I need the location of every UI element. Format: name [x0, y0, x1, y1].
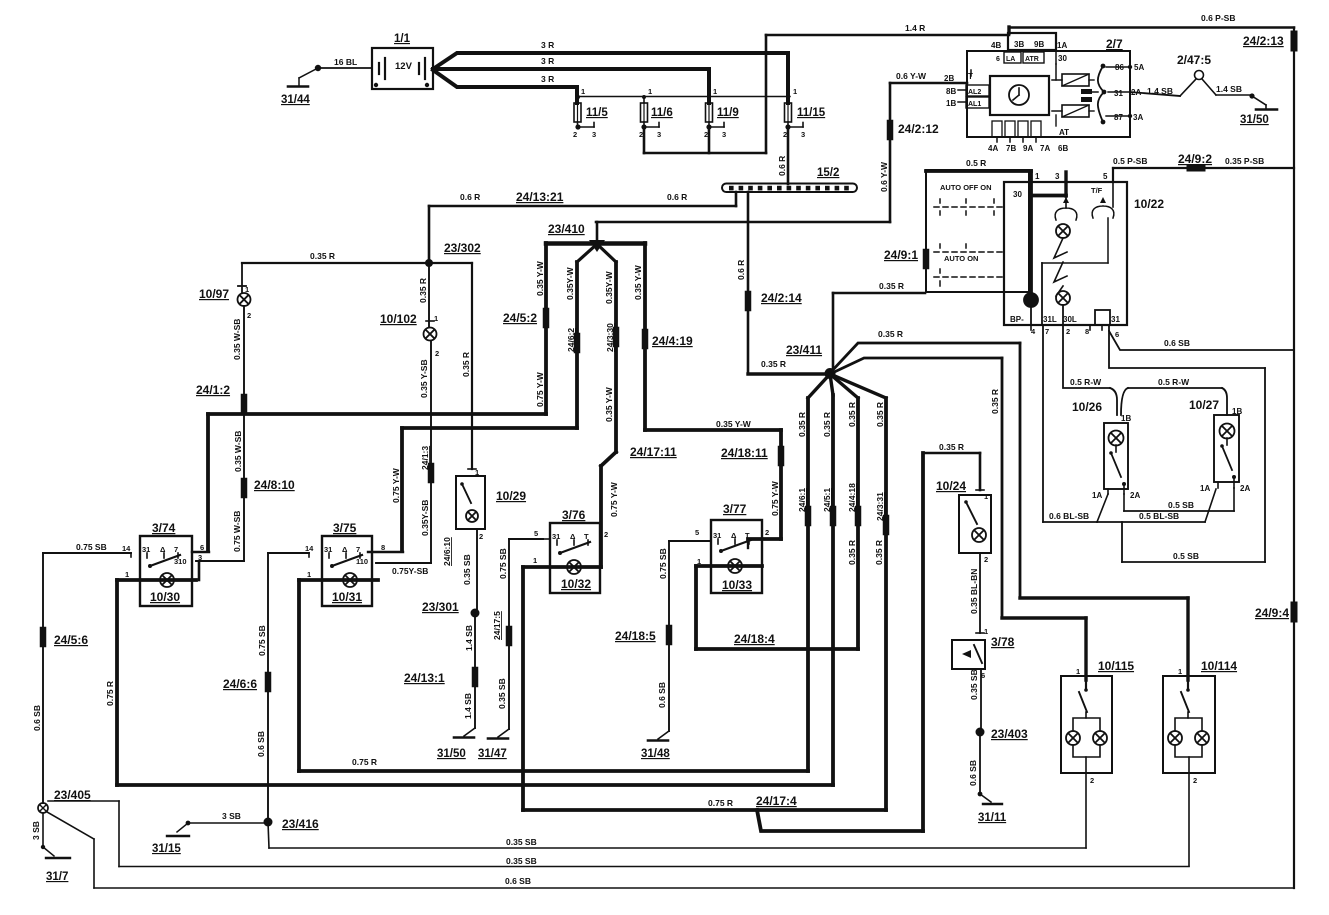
svg-text:23/403: 23/403 [991, 727, 1028, 741]
wire right edge vertical bus [1293, 28, 1295, 889]
svg-text:31: 31 [1114, 89, 1123, 98]
wire 0.5 R-W 30L to 10/26 [1063, 325, 1110, 388]
svg-text:2: 2 [604, 530, 608, 539]
svg-text:24/9:2: 24/9:2 [1178, 152, 1212, 166]
svg-text:0.6 P-SB: 0.6 P-SB [1201, 13, 1236, 23]
svg-text:0.35 W-SB: 0.35 W-SB [233, 431, 243, 472]
svg-text:7B: 7B [1006, 144, 1016, 153]
wire 0.6 SB bottom bus 3 [94, 887, 1294, 889]
svg-text:0.75 SB: 0.75 SB [76, 542, 107, 552]
control unit 10/22 main box [1004, 182, 1127, 325]
svg-text:1A: 1A [1092, 491, 1102, 500]
svg-text:10/29: 10/29 [496, 489, 526, 503]
junction 23/405 [38, 803, 48, 813]
svg-text:1.4 R: 1.4 R [905, 23, 925, 33]
svg-text:0.75 Y-W: 0.75 Y-W [609, 481, 619, 517]
switch 3/77 with lamp 10/33 [711, 520, 762, 593]
connector 24/9:4 [1291, 605, 1298, 619]
svg-text:3A: 3A [1133, 113, 1143, 122]
svg-text:AUTO ON: AUTO ON [944, 254, 978, 263]
wire 0.6 SB 23/403 to ground 31/11 [979, 732, 981, 794]
svg-text:2: 2 [1193, 776, 1197, 785]
wire 0.35 BL-BN 10/24 pin 2 to 3/78 [979, 553, 981, 633]
fuse 11/15 [786, 53, 790, 103]
connector 24/9:1 tick on 10/22 left edge [923, 252, 930, 266]
svg-text:8: 8 [1085, 327, 1089, 336]
junction 23/410 [596, 222, 599, 241]
relay 2/7 inner top row LA ATR [1004, 52, 1021, 63]
svg-text:6B: 6B [1058, 144, 1068, 153]
lamp inside 10/22 lower [1056, 291, 1070, 305]
wire 0.35 SB bottom bus 1 [268, 822, 269, 848]
svg-text:0.35 R: 0.35 R [761, 359, 786, 369]
svg-text:Δ: Δ [731, 531, 737, 540]
svg-text:0.35Y-W: 0.35Y-W [604, 270, 614, 304]
relay 2/7 top connector box with pins 4B 3B 9B 1A [1008, 33, 1056, 50]
svg-text:1: 1 [713, 87, 717, 96]
svg-text:0.6 BL-SB: 0.6 BL-SB [1049, 511, 1089, 521]
svg-text:2: 2 [573, 130, 577, 139]
control unit 10/22 selector box AUTO OFF ON [926, 170, 1029, 292]
svg-text:0.6 R: 0.6 R [460, 192, 480, 202]
svg-text:5A: 5A [1134, 63, 1144, 72]
svg-text:5: 5 [695, 528, 699, 537]
svg-text:10/33: 10/33 [722, 578, 752, 592]
svg-text:0.35 R: 0.35 R [990, 389, 1000, 414]
svg-text:24/1:3: 24/1:3 [420, 446, 430, 470]
fuse box 15/2 bus bar [722, 184, 857, 193]
svg-text:AUTO OFF ON: AUTO OFF ON [940, 183, 992, 192]
svg-text:24/5:1: 24/5:1 [822, 488, 832, 512]
wire 0.6 BL-SB 31L to 10/26 pin 1A [1043, 521, 1097, 523]
svg-text:0.35 R: 0.35 R [878, 329, 903, 339]
svg-text:31/50: 31/50 [1240, 114, 1269, 126]
svg-text:0.35 R: 0.35 R [847, 540, 857, 565]
wire 0.35 SB 10/114 pin 2 to bottom bus [1188, 773, 1190, 866]
wire 0.5 R along 10/22 top to pin 1 [926, 169, 1031, 173]
svg-text:23/416: 23/416 [282, 817, 319, 831]
wire 0.35 R star to 24/9:1 line [832, 293, 835, 373]
switch 3/78 [952, 640, 985, 669]
svg-text:10/114: 10/114 [1201, 659, 1237, 673]
svg-text:24/17:5: 24/17:5 [492, 611, 502, 640]
svg-text:0.6 SB: 0.6 SB [256, 731, 266, 757]
svg-text:8B: 8B [946, 87, 956, 96]
svg-text:0.35 SB: 0.35 SB [462, 554, 472, 585]
svg-text:24/4:18: 24/4:18 [847, 483, 857, 512]
svg-text:24/2:12: 24/2:12 [898, 122, 939, 136]
fuse 11/5 [575, 87, 579, 103]
relay 2/7 [967, 51, 1130, 137]
control unit 10/22 internals T contacts [1065, 196, 1067, 208]
svg-text:24/13:21: 24/13:21 [516, 190, 564, 204]
svg-text:0.35 SB: 0.35 SB [506, 856, 537, 866]
svg-text:1A: 1A [1057, 41, 1067, 50]
junction 23/416 [264, 818, 273, 827]
svg-text:31: 31 [552, 532, 560, 541]
svg-text:0.35 Y-SB: 0.35 Y-SB [419, 359, 429, 398]
svg-text:24/4:19: 24/4:19 [652, 334, 693, 348]
lamp switch unit 10/26 [1104, 423, 1128, 489]
wire 3 R middle [433, 67, 709, 71]
svg-text:1: 1 [793, 87, 797, 96]
lamp inside 10/22 upper [1056, 224, 1070, 238]
junction 23/301 [471, 609, 480, 618]
lamp unit 10/115 [1061, 676, 1112, 773]
svg-text:1: 1 [648, 87, 652, 96]
wire 31L from 10/22 pin 7 [1042, 325, 1044, 522]
relay 2/7 bottom pins 4A 7B 9A 7A 6B and AT [992, 121, 1002, 137]
wire 0.75 R 3/74 pin 1 to star via 24/5:1 [115, 580, 119, 785]
svg-text:2: 2 [704, 130, 708, 139]
svg-text:1: 1 [984, 492, 988, 501]
fuse 11/9 [707, 69, 711, 103]
wire 0.75 R 3/75 pin 1 to star via 24/6:1 [297, 580, 301, 771]
wire 0.35 Y-SB from 10/102 through 24/1:3 to 3/75 pin 3 [430, 341, 432, 563]
wire 0.35 R 3/77 pin 1 to star via 24/18:4 line [694, 566, 698, 649]
svg-text:30: 30 [1058, 54, 1067, 63]
lamp switch unit 10/27 [1214, 415, 1239, 482]
svg-text:24/1:2: 24/1:2 [196, 383, 230, 397]
svg-text:0.35 R: 0.35 R [310, 251, 335, 261]
svg-text:4A: 4A [988, 144, 998, 153]
svg-text:T/F: T/F [1091, 186, 1103, 195]
svg-text:11/15: 11/15 [797, 107, 826, 119]
wire 0.75 SB 3/75 pin 14 to 24/6:6 and 23/416 [308, 553, 310, 557]
svg-text:0.35 R: 0.35 R [461, 352, 471, 377]
svg-text:0.35 R: 0.35 R [822, 412, 832, 437]
svg-text:AL2: AL2 [968, 89, 981, 96]
svg-text:1: 1 [1076, 667, 1080, 676]
switch zigzag inside 10/22 [1054, 238, 1067, 258]
svg-text:16 BL: 16 BL [334, 57, 357, 67]
svg-text:24/6:1: 24/6:1 [797, 488, 807, 512]
svg-text:24/2:14: 24/2:14 [761, 291, 802, 305]
junction 23/302 with wire 0.35 R [242, 262, 472, 264]
svg-text:3: 3 [722, 130, 726, 139]
svg-text:AL1: AL1 [968, 101, 981, 108]
wire 3/76 pin 1 to star via 24/3:31 line y=810 [521, 567, 525, 810]
svg-text:7: 7 [1045, 327, 1049, 336]
svg-text:4B: 4B [991, 41, 1001, 50]
svg-text:3/78: 3/78 [991, 635, 1015, 649]
wire 3 SB 23/405 to ground 31/7 [42, 813, 44, 847]
svg-text:24/3:30: 24/3:30 [605, 323, 615, 352]
svg-text:0.35 SB: 0.35 SB [969, 669, 979, 700]
wire 0.35 R star down ray 24/6:1 [808, 374, 830, 398]
svg-text:24/2:13: 24/2:13 [1243, 34, 1284, 48]
relay 2/7 coil contacts [1062, 74, 1089, 86]
svg-text:0.6 Y-W: 0.6 Y-W [879, 161, 889, 192]
svg-text:2: 2 [783, 130, 787, 139]
wire 3 R bottom [433, 70, 577, 87]
wire 0.75 SB 3/74 pin 14 to 24/5:6 [130, 553, 132, 557]
svg-text:7A: 7A [1040, 144, 1050, 153]
lamp 10/97 [241, 263, 243, 292]
junction 23/403 [976, 728, 985, 737]
switch 3/76 with lamp 10/32 [550, 523, 600, 593]
wire 1.4 SB switch to ground 31/50 [1202, 79, 1216, 95]
wire 0.35 R star down ray 24/4:18 [830, 374, 858, 398]
svg-text:11/9: 11/9 [717, 107, 739, 119]
svg-text:24/6:10: 24/6:10 [442, 537, 452, 566]
svg-text:10/30: 10/30 [150, 590, 180, 604]
svg-text:0.35 R: 0.35 R [879, 281, 904, 291]
svg-text:0.75 Y-W: 0.75 Y-W [535, 371, 545, 407]
svg-text:2: 2 [1090, 776, 1094, 785]
svg-text:2A: 2A [1130, 491, 1140, 500]
svg-text:3/75: 3/75 [333, 521, 357, 535]
wire 0.5 R-W jumper to 10/27 [1121, 388, 1128, 415]
svg-text:0.75 SB: 0.75 SB [498, 548, 508, 579]
svg-text:1: 1 [1035, 172, 1040, 181]
svg-text:1: 1 [307, 570, 311, 579]
svg-text:3 SB: 3 SB [222, 811, 241, 821]
fuse 11/6 [643, 97, 645, 104]
svg-text:31/47: 31/47 [478, 748, 507, 760]
svg-text:1.4 SB: 1.4 SB [1216, 84, 1242, 94]
svg-text:BP-: BP- [1010, 315, 1024, 324]
svg-text:31/15: 31/15 [152, 843, 181, 855]
svg-text:30L: 30L [1063, 315, 1077, 324]
svg-text:0.5 P-SB: 0.5 P-SB [1113, 156, 1148, 166]
svg-text:23/301: 23/301 [422, 600, 459, 614]
svg-text:1B: 1B [946, 99, 956, 108]
svg-text:Δ: Δ [342, 545, 348, 554]
wire fuse output bracket to 1.4 R [643, 127, 646, 153]
svg-text:24/9:4: 24/9:4 [1255, 606, 1289, 620]
wire 0.6 SB 23/405 diagonal to bottom bus [47, 812, 94, 839]
ground 31/50 bottom [464, 728, 475, 736]
svg-text:2: 2 [984, 555, 988, 564]
wire 0.35/0.75 Y-W drop B to 24/6:2 and switch 3/75 [577, 244, 597, 262]
svg-text:0.35 R: 0.35 R [939, 442, 964, 452]
battery 1/1 [372, 48, 433, 89]
svg-text:0.75 R: 0.75 R [105, 681, 115, 706]
svg-text:24/13:1: 24/13:1 [404, 671, 445, 685]
svg-text:2B: 2B [944, 74, 954, 83]
svg-text:24/18:5: 24/18:5 [615, 629, 656, 643]
svg-text:0.35 W-SB: 0.35 W-SB [232, 319, 242, 360]
svg-text:3: 3 [592, 130, 596, 139]
switch 10/24 [979, 453, 982, 490]
svg-text:0.35 Y-W: 0.35 Y-W [604, 386, 614, 422]
wire 0.5 P-SB / 0.35 P-SB with connector 24/9:2 [1113, 167, 1294, 169]
svg-text:2A: 2A [1131, 88, 1141, 97]
svg-text:8: 8 [381, 543, 385, 552]
svg-text:0.35 R: 0.35 R [874, 540, 884, 565]
svg-text:24/5:2: 24/5:2 [503, 311, 537, 325]
svg-text:0.35 Y-W: 0.35 Y-W [716, 419, 752, 429]
svg-text:6: 6 [996, 56, 1000, 63]
svg-text:23/405: 23/405 [54, 788, 91, 802]
svg-text:10/115: 10/115 [1098, 659, 1134, 673]
svg-text:1B: 1B [1121, 414, 1131, 423]
wire 16 BL battery feed [315, 65, 321, 71]
svg-text:2: 2 [479, 532, 483, 541]
svg-text:3: 3 [657, 130, 661, 139]
svg-text:24/18:11: 24/18:11 [721, 446, 768, 460]
svg-text:310: 310 [174, 557, 187, 566]
svg-text:3B: 3B [1014, 40, 1024, 49]
lamp unit 10/114 [1163, 676, 1215, 773]
svg-text:0.75 R: 0.75 R [708, 798, 733, 808]
svg-text:0.75 W-SB: 0.75 W-SB [232, 511, 242, 552]
wire 0.6 SB 10/22 pin 31 to right edge [1109, 325, 1294, 350]
svg-text:0.6 R: 0.6 R [736, 260, 746, 280]
star junction 23/411 [825, 368, 836, 379]
svg-text:10/97: 10/97 [199, 287, 229, 301]
wire 0.35 SB 23/405 branch to second bus [48, 800, 119, 802]
wire 0.35/0.75 Y-W drop C to 24/3:30 and switch 3/76 [597, 244, 616, 262]
svg-text:0.6 SB: 0.6 SB [968, 760, 978, 786]
svg-text:2/7: 2/7 [1106, 37, 1123, 51]
wire 3 R top [433, 53, 788, 69]
svg-text:2: 2 [435, 349, 439, 358]
wire 0.5 SB lower link [1122, 561, 1265, 563]
svg-text:10/26: 10/26 [1072, 400, 1102, 414]
svg-text:11/6: 11/6 [651, 107, 673, 119]
wire 10/22 internal 31 link [1042, 262, 1108, 264]
svg-text:9B: 9B [1034, 40, 1044, 49]
wire 0.35/0.75 Y-W drop D to 24/4:19 and switch 3/77 [643, 243, 647, 430]
wire 1.4 SB 23/301 via 24/13:1 to ground 31/50 [474, 613, 476, 728]
svg-text:31/48: 31/48 [641, 748, 670, 760]
svg-text:1.4 SB: 1.4 SB [463, 693, 473, 719]
svg-text:ATR: ATR [1025, 56, 1039, 63]
svg-text:24/6:2: 24/6:2 [566, 328, 576, 352]
svg-text:23/302: 23/302 [444, 241, 481, 255]
svg-text:3 SB: 3 SB [31, 821, 41, 840]
wire 0.6 P-SB relay to right edge 24/2:13 [1009, 26, 1294, 29]
wire 0.35 SB 3/78 to junction 23/403 [980, 669, 982, 728]
wire 10/22 pin 1 internal to BP- lamp [1029, 171, 1033, 293]
svg-text:31: 31 [713, 531, 721, 540]
svg-text:24/17:11: 24/17:11 [630, 445, 677, 459]
svg-text:0.6 R: 0.6 R [667, 192, 687, 202]
connector 24/2:13 [1291, 34, 1298, 48]
svg-text:14: 14 [122, 544, 131, 553]
wire 0.5 SB 10/26 pin 2A to 10/27 pin 2A [1123, 494, 1125, 511]
svg-text:5: 5 [534, 529, 538, 538]
wire 0.35 R star down ray 24/5:1 [830, 374, 833, 395]
svg-text:0.35 P-SB: 0.35 P-SB [1225, 156, 1264, 166]
svg-text:0.6 SB: 0.6 SB [1164, 338, 1190, 348]
svg-text:0.35 Y-W: 0.35 Y-W [633, 264, 643, 300]
switch 3/75 with lamp 10/31 [322, 536, 372, 606]
svg-text:3 R: 3 R [541, 56, 554, 66]
svg-text:1: 1 [533, 556, 537, 565]
svg-text:0.5 SB: 0.5 SB [1168, 500, 1194, 510]
svg-text:0.5 R-W: 0.5 R-W [1158, 377, 1190, 387]
svg-text:2A: 2A [1240, 484, 1250, 493]
svg-text:10/31: 10/31 [332, 590, 362, 604]
svg-text:12V: 12V [395, 61, 413, 72]
svg-text:0.35 SB: 0.35 SB [497, 678, 507, 709]
svg-text:0.35Y-W: 0.35Y-W [565, 266, 575, 300]
wire 0.35 W-SB from 10/97 through 24/1:2 and 24/8:10 to 3/74 pin 3 [243, 306, 245, 561]
svg-text:1: 1 [475, 468, 479, 477]
svg-text:1/1: 1/1 [394, 33, 411, 45]
wire 0.6 Y-W relay to junction 23/410 [890, 82, 967, 85]
wire 0.35 R star down ray 24/3:31 [830, 374, 886, 398]
svg-text:0.6 Y-W: 0.6 Y-W [896, 71, 927, 81]
svg-text:10/32: 10/32 [561, 577, 591, 591]
svg-text:31: 31 [142, 545, 150, 554]
svg-text:2: 2 [1066, 327, 1070, 336]
svg-text:10/102: 10/102 [380, 312, 417, 326]
svg-text:6: 6 [1115, 330, 1119, 339]
svg-text:31/50: 31/50 [437, 748, 466, 760]
svg-text:24/17:4: 24/17:4 [756, 794, 797, 808]
svg-text:3: 3 [1055, 172, 1060, 181]
svg-text:110: 110 [356, 557, 368, 566]
svg-text:0.35Y-SB: 0.35Y-SB [420, 500, 430, 536]
wire 0.5 SB 10/22 pin 31 branch down [1109, 331, 1265, 368]
svg-text:Δ: Δ [570, 532, 576, 541]
svg-text:23/411: 23/411 [786, 343, 822, 357]
svg-text:0.75Y-SB: 0.75Y-SB [392, 566, 428, 576]
wire 0.6 R 15/2 to 23/411 star with connector 24/2:14 [747, 192, 750, 374]
svg-text:0.35 R: 0.35 R [797, 412, 807, 437]
svg-text:3/76: 3/76 [562, 508, 586, 522]
svg-text:24/18:4: 24/18:4 [734, 632, 775, 646]
wire 10/22 pin 3 internal bus 30 [1064, 172, 1067, 196]
svg-text:0.35 SB: 0.35 SB [506, 837, 537, 847]
svg-text:10/27: 10/27 [1189, 398, 1219, 412]
switch 3/74 with lamp 10/30 [140, 536, 192, 606]
wire 0.35 R 23/302 to 10/29 [471, 263, 473, 469]
svg-text:0.5 BL-SB: 0.5 BL-SB [1139, 511, 1179, 521]
svg-text:AT: AT [1059, 128, 1069, 137]
wire 0.75 SB 3/77 pin 5 to 24/18:5 and ground 31/48 [669, 540, 711, 542]
svg-text:5: 5 [1103, 172, 1108, 181]
svg-text:3/77: 3/77 [723, 502, 747, 516]
svg-text:3: 3 [801, 130, 805, 139]
svg-text:0.75 SB: 0.75 SB [257, 625, 267, 656]
svg-text:Δ: Δ [160, 545, 166, 554]
svg-text:0.5 SB: 0.5 SB [1173, 551, 1199, 561]
svg-text:1A: 1A [1200, 484, 1210, 493]
wire 3 SB 23/416 to ground 31/15 [188, 822, 264, 824]
svg-text:0.75 SB: 0.75 SB [658, 548, 668, 579]
svg-text:0.6 SB: 0.6 SB [505, 876, 531, 886]
svg-text:0.35 R: 0.35 R [418, 278, 428, 303]
ground 31/44 [299, 68, 318, 78]
svg-text:31/11: 31/11 [978, 812, 1007, 824]
svg-text:2/47:5: 2/47:5 [1177, 53, 1211, 67]
svg-text:10/24: 10/24 [936, 479, 966, 493]
svg-text:6: 6 [200, 543, 204, 552]
svg-text:0.75 R: 0.75 R [352, 757, 377, 767]
svg-text:0.35 R: 0.35 R [875, 402, 885, 427]
svg-text:3: 3 [198, 553, 202, 562]
relay 2/7 timer clock symbol [990, 76, 1049, 115]
wire 0.35 SB 10/29 pin 2 to junction 23/301 [476, 529, 478, 613]
svg-text:1B: 1B [1232, 407, 1242, 416]
switch 2/47:5 [1195, 71, 1204, 80]
lamp 10/102 [428, 263, 430, 327]
svg-text:24/6:6: 24/6:6 [223, 677, 257, 691]
svg-text:31L: 31L [1043, 315, 1057, 324]
wire 1.4 SB relay pin 2A to switch 2/47:5 [1130, 92, 1180, 96]
svg-text:0.6 SB: 0.6 SB [657, 682, 667, 708]
svg-text:2: 2 [247, 311, 251, 320]
sub box on 10/22 bottom edge [1095, 310, 1110, 325]
wire 0.35 R star left ray [748, 372, 830, 375]
svg-text:24/8:10: 24/8:10 [254, 478, 295, 492]
svg-text:0.35 R: 0.35 R [847, 402, 857, 427]
